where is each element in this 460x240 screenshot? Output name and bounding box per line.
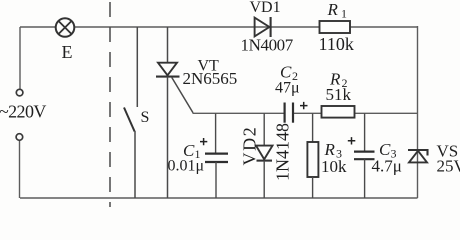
svg-text:25V: 25V — [437, 157, 460, 176]
capacitor C1 — [168, 113, 229, 198]
lamp E — [56, 18, 75, 62]
zener diode VS — [408, 142, 460, 176]
resistor R2 — [322, 70, 355, 118]
resistor R1 — [319, 0, 354, 54]
svg-text:51k: 51k — [326, 85, 352, 104]
resistor R3 — [307, 113, 347, 198]
svg-text:VD1: VD1 — [250, 0, 281, 16]
capacitor C3 — [348, 113, 402, 198]
svg-text:110k: 110k — [319, 34, 354, 54]
svg-text:10k: 10k — [321, 157, 347, 176]
wire bottom rail — [20, 197, 418, 199]
wire top rail — [20, 26, 418, 28]
svg-text:4.7μ: 4.7μ — [372, 157, 402, 176]
wire right rail — [417, 26, 419, 198]
node dashed separator line — [109, 2, 111, 207]
wire gate horizontal — [193, 112, 418, 114]
diode VD2 — [240, 113, 293, 198]
capacitor C2 — [275, 63, 308, 123]
wire left rail upper — [19, 27, 21, 89]
svg-text:VD2: VD2 — [240, 126, 260, 166]
svg-text:1N4007: 1N4007 — [241, 36, 294, 55]
svg-text:2N6565: 2N6565 — [183, 69, 238, 88]
svg-text:1N4148: 1N4148 — [273, 123, 293, 181]
terminal upper — [16, 89, 23, 96]
svg-text:47μ: 47μ — [275, 80, 300, 97]
wire left rail lower — [19, 140, 21, 198]
svg-text:E: E — [62, 42, 73, 62]
svg-text:S: S — [141, 109, 150, 126]
svg-text:1: 1 — [341, 7, 347, 21]
wire gate diagonal — [172, 78, 193, 113]
terminal lower — [16, 134, 23, 141]
diode VD1 — [241, 0, 294, 55]
thyristor VT — [156, 27, 237, 198]
svg-text:~220V: ~220V — [0, 102, 46, 122]
svg-text:0.01μ: 0.01μ — [168, 158, 205, 175]
switch S — [124, 27, 149, 198]
svg-text:R: R — [327, 0, 339, 19]
